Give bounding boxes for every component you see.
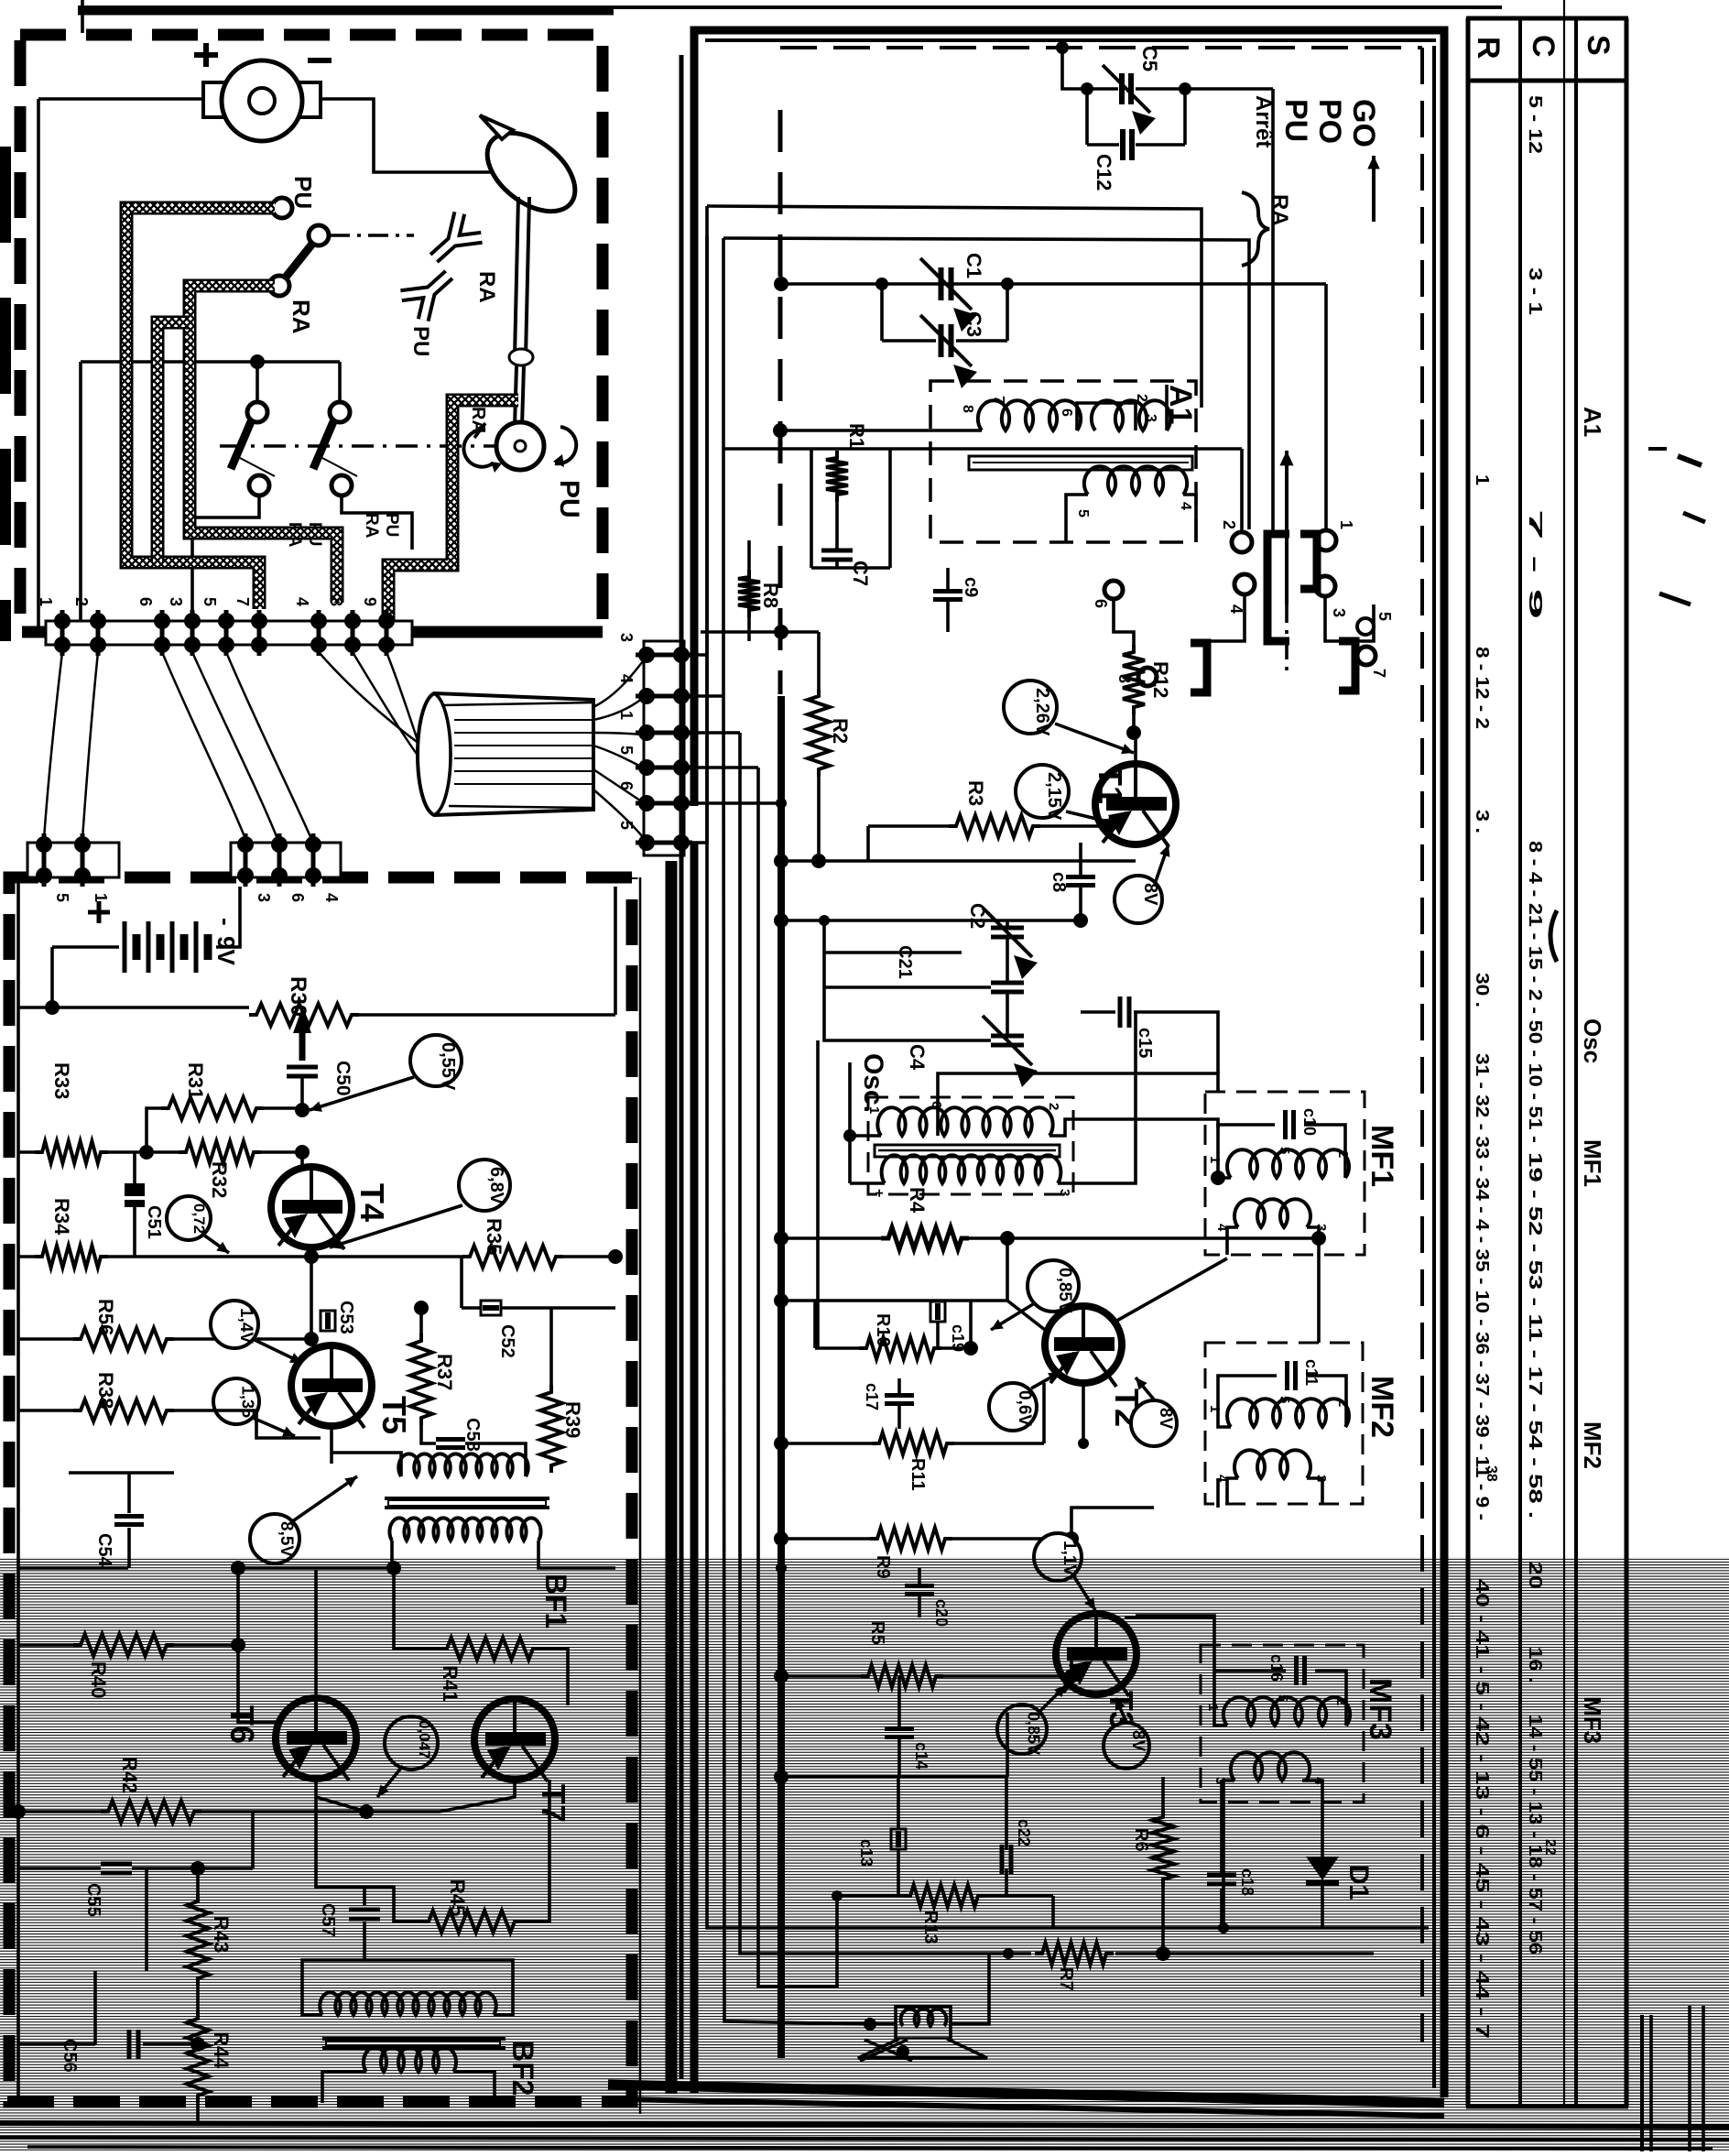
C2 C21 C4 wires [1006,920,1009,927]
wire T3 collector MF3 [1125,1616,1214,1619]
capacitor C11 [1285,1361,1289,1390]
svg-text:0,6V: 0,6V [1015,1390,1034,1426]
node T5 base [304,1332,319,1346]
terminal 1 [54,613,71,629]
wire rail 1940 [781,1775,1007,1779]
svg-text:5: 5 [1376,612,1394,621]
svg-text:C3: C3 [962,311,985,337]
tone arm tube [515,197,518,357]
terminal strip 9-pin [46,621,412,645]
voltage 8V T1 [1115,876,1162,923]
A1 coupling coil [1092,400,1170,430]
left page edge artifact [0,147,11,641]
resistor R31 [161,1097,264,1119]
svg-text:C12: C12 [1093,154,1115,191]
svg-text:3: 3 [1330,608,1348,617]
switch S2 contact a [247,402,267,422]
antenna A1 box dashed [930,381,1196,542]
bus junction dots [776,626,787,637]
svg-text:6: 6 [136,597,155,606]
switch bracket a [1267,534,1289,641]
svg-text:19 - 52 - 53 - 11 - 17 - 54 -: 19 - 52 - 53 - 11 - 17 - 54 - 58 . [1525,1152,1545,1519]
capacitor C57 [349,1908,380,1912]
diode D1 [1306,1857,1339,1880]
svg-text:c9: c9 [961,577,981,597]
svg-text:2,15V: 2,15V [1044,772,1064,821]
wire MF2 T3 [1216,1478,1220,1508]
wire contact1 up [1324,284,1328,530]
switch axis arrow [1285,451,1289,604]
wire rail 1352 to T2 [1007,1236,1319,1240]
voltage 0,85V T2 [1028,1260,1079,1312]
capacitor C10 [1283,1110,1288,1139]
resistor R30 [249,1004,359,1026]
svg-text:GO: GO [1346,99,1381,147]
wire rail 1712 left [18,1566,128,1570]
svg-text:+: + [871,1189,886,1197]
svg-text:Osc: Osc [1579,1018,1606,1063]
svg-text:R8: R8 [759,583,782,608]
svg-text:RA: RA [1267,194,1292,226]
terminal 3 [184,613,201,629]
svg-text:C4: C4 [906,1044,929,1071]
resistor R2 [808,689,830,777]
svg-text:R38: R38 [94,1372,117,1409]
MF1 secondary coil [1234,1199,1310,1227]
tone arm pickup head [473,117,589,227]
wire contact3 right [1325,596,1374,641]
switch contact 1 [1316,530,1336,550]
resistor R7 [1035,1943,1114,1965]
hatched bus branch [158,322,190,562]
svg-text:C58: C58 [462,1418,483,1452]
voltage 2,15V [1016,765,1069,818]
S2 mech axis dash-dot [220,444,495,448]
svg-text:8: 8 [960,405,975,413]
switch contact 8 [1138,668,1157,686]
thin page line right [1563,0,1565,2107]
svg-text:T5: T5 [375,1396,413,1434]
svg-text:R35: R35 [483,1218,506,1255]
resistor R9 [870,1528,952,1550]
wire T4 emitter node [310,1247,313,1257]
svg-text:PU: PU [382,513,401,537]
capacitor C17 [885,1393,914,1398]
stray marks right margin [1648,447,1667,451]
switch contact 3 [1315,576,1335,596]
switch bracket b [1300,534,1317,589]
long return wires [707,843,1429,1928]
switch contact 7 [1357,647,1376,665]
node T4 base [295,1103,310,1117]
resistor R38 [73,1399,174,1421]
svg-text:5: 5 [1277,1396,1292,1403]
capacitor C18 [1207,1873,1236,1878]
wire T2 collector MF2 [1114,1258,1227,1323]
svg-text:5: 5 [201,597,219,606]
svg-text:R4: R4 [906,1187,929,1214]
svg-text:1: 1 [1472,474,1492,485]
svg-text:c11: c11 [1302,1359,1321,1386]
inner dashed vertical left [778,110,783,694]
MF2 wires [1218,1376,1277,1427]
transistor T7 [474,1699,555,1780]
switch contact 5 [1357,618,1374,635]
svg-text:31 - 32 - 33 - 34 - 4 - 35 - 1: 31 - 32 - 33 - 34 - 4 - 35 - 10 - 36 - 3… [1472,1053,1492,1520]
capacitor C13 [891,1829,906,1849]
motor M [38,97,220,101]
svg-text:T1: T1 [1092,766,1129,804]
wire rail left x20 [16,877,20,2102]
resistor R5 [861,1665,943,1687]
svg-text:7: 7 [234,597,252,606]
resistor R34 [35,1246,108,1268]
svg-text:7: 7 [1370,669,1388,678]
wire rail 2040 [251,1812,255,1868]
svg-text:2: 2 [1220,520,1238,529]
svg-text:C: C [1526,35,1560,58]
thin line right of amp border [639,877,642,2114]
svg-text:5: 5 [617,746,636,755]
switch S1 RA contact [309,225,329,245]
switch bracket d [1339,641,1355,691]
capacitor C16 [1294,1656,1299,1685]
loudspeaker [896,2007,951,2039]
voltage 8V T3 [1104,1723,1149,1769]
capacitor C50 [287,1065,318,1070]
svg-text:C53: C53 [336,1301,356,1334]
svg-text:5: 5 [1277,1147,1292,1154]
wires connector to box [684,653,707,657]
svg-text:R34: R34 [50,1198,73,1236]
svg-text:c10: c10 [1300,1108,1319,1136]
resistor R13 [903,1885,985,1907]
svg-text:1: 1 [1207,1405,1223,1412]
MF3 wires [1214,1671,1286,1726]
svg-text:R: R [1471,37,1506,60]
svg-text:R30: R30 [286,976,310,1017]
svg-text:6: 6 [288,893,307,902]
table frame [1466,18,1471,2107]
MF2 primary coil [1227,1399,1349,1427]
MF3 primary coil [1223,1697,1350,1726]
svg-text:MF1: MF1 [1365,1125,1399,1187]
svg-text:C2: C2 [966,903,989,929]
capacitor C7 [821,549,853,553]
voltage 8,5V [250,1514,299,1563]
transformer BF1 [398,1454,527,1476]
svg-text:MF2: MF2 [1365,1376,1399,1438]
wire rail 225 [707,206,1202,408]
switch contact 6 [1104,581,1123,599]
transistor T6 [276,1698,356,1779]
switch contact 4 [1234,574,1255,594]
wire emitter down [310,1257,313,1339]
svg-text:R32: R32 [208,1161,231,1198]
wire T3 base [1070,1647,1073,1676]
voltage 0,6V [989,1383,1037,1431]
wire T1 row [781,859,1136,863]
voltage 1,35V [213,1378,259,1424]
oscillator coil box dashed [868,1097,1073,1194]
bus ground vertical [666,861,678,2094]
voltage 8V T2 [1131,1400,1177,1446]
svg-text:8 - 12 - 2: 8 - 12 - 2 [1472,647,1492,729]
MF3 secondary coil [1231,1752,1310,1780]
svg-text:6: 6 [617,781,636,790]
svg-text:5: 5 [617,821,636,830]
svg-text:R31: R31 [184,1062,207,1099]
svg-text:9: 9 [361,597,379,606]
svg-text:C5: C5 [1138,46,1161,71]
svg-text:PU: PU [408,326,433,356]
terminal 8 [344,613,361,629]
svg-text:2,26V: 2,26V [1032,688,1052,736]
switch S2 contact c [249,475,269,495]
connector pin 1 lower-left [74,836,91,853]
resistor R56 [73,1328,174,1350]
resistor R43 [187,1894,209,1986]
svg-text:PU: PU [289,176,317,209]
capacitor C21 [991,981,1024,985]
resistor R33 [35,1141,108,1163]
MF1 wires [1218,1125,1275,1178]
switch bracket c [1191,643,1207,692]
transformer BF2 [320,1992,495,2015]
svg-text:2: 2 [72,597,91,606]
R1 C7 frame [810,449,813,568]
top edge line [78,5,1502,9]
A1 primary coil [978,400,1081,430]
terminal 5 [218,613,234,629]
MF2 box dashed [1205,1343,1363,1504]
transistor T1 [1095,764,1176,844]
motor - label [308,58,332,63]
svg-text:8,5V: 8,5V [277,1521,296,1557]
transistor T4 [271,1167,352,1247]
svg-text:6: 6 [1059,408,1074,417]
resistor R3 [949,815,1040,837]
svg-text:1: 1 [1337,520,1355,529]
svg-text:R1: R1 [845,423,868,449]
svg-text:RA: RA [474,271,499,303]
svg-text:PU: PU [1278,99,1313,142]
svg-text:PO: PO [1312,99,1347,144]
voltage 2,26V [1004,681,1057,734]
svg-text:R10: R10 [873,1313,893,1347]
svg-text:5 - 12: 5 - 12 [1525,95,1545,154]
resistor R12 [1123,645,1145,714]
svg-text:6,8V: 6,8V [486,1167,506,1205]
tone arm pivot [496,422,544,470]
trimmer C1 [939,267,944,300]
wire amp bottom rail [18,2102,632,2104]
svg-text:R37: R37 [433,1354,456,1390]
voltage 0,72V [167,1196,211,1240]
svg-text:7: 7 [991,396,1006,404]
capacitor C56 [127,2030,132,2059]
trimmer C5 [1119,73,1125,104]
capacitor C54 [69,1471,174,1475]
terminal 6 [154,613,170,629]
wires terminal strip to cable [319,652,432,753]
capacitor C53 [321,1311,335,1331]
connector pin 3 amp [237,836,254,853]
connector 2-pin 5-1 [27,843,119,877]
svg-text:MF1: MF1 [1579,1139,1606,1187]
svg-text:R2: R2 [829,718,852,744]
connector pin 6 [638,795,655,811]
resistor R4 [881,1227,969,1249]
resistor R10 [859,1337,941,1359]
scanline noise band [0,1557,1729,2151]
MF1 box dashed [1205,1092,1365,1255]
svg-text:1: 1 [92,893,110,902]
wire rail 260 [723,238,1249,529]
capacitor C20 [905,1584,934,1588]
voltage 1,4V [211,1301,258,1348]
BF1 wires [332,1453,401,1476]
capacitor C58 [436,1437,465,1442]
wire contact2 up [1240,449,1244,532]
svg-text:2: 2 [1046,1103,1061,1110]
svg-text:3 .: 3 . [1472,810,1492,833]
svg-text:9V: 9V [212,936,240,965]
connector pin 5 lower-left [36,836,52,853]
amplifier box (dashed) [9,877,632,2102]
connector pin 4 [638,688,655,704]
svg-text:1: 1 [617,711,636,720]
A1 secondary coil [1084,466,1187,495]
svg-text:R33: R33 [50,1062,73,1099]
switch S2 contact d [332,475,352,495]
Osc secondary coil [882,1155,1061,1183]
motor + label [194,52,218,58]
bottom border amp dashed [7,2096,591,2107]
svg-text:0,72: 0,72 [190,1203,208,1234]
wire band switch vertical [1271,89,1275,532]
svg-text:3: 3 [167,597,185,606]
resistor R1 [826,451,848,502]
svg-text:C7: C7 [849,561,872,586]
svg-text:c17: c17 [863,1383,881,1410]
capacitor C22 [1000,1845,1005,1874]
svg-text:3 - 1: 3 - 1 [1525,267,1545,315]
trimmer C3 [939,324,944,357]
svg-text:3: 3 [617,633,636,642]
svg-text:C21: C21 [895,945,915,979]
switch contact 2 [1232,532,1252,552]
wire rail 1712 rx [781,1567,919,1569]
resistor R11 [872,1432,954,1454]
C1 C3 wiring [880,284,884,341]
connector pin 3 [638,647,655,663]
svg-text:R12: R12 [1149,661,1172,698]
wire long vertical 893 [816,1040,820,1348]
svg-text:8V: 8V [1140,883,1160,906]
battery B1 9V [123,921,127,973]
connector pin 6 amp [271,836,288,853]
capacitor C51 [125,1183,145,1196]
T6 T7 emitter join [316,1779,366,1812]
svg-text:RA: RA [288,299,315,334]
voltage 1,1V [1034,1533,1082,1581]
pivot rotation arrows [463,430,493,467]
resistor R44 [187,2011,209,2103]
svg-text:1: 1 [866,1106,882,1114]
connector 3-pin 3-6-4 [231,843,341,877]
svg-text:30 .: 30 . [1472,973,1492,1007]
switch S2 wiring top [81,360,340,364]
terminal 7 [251,613,267,629]
terminal 2 [90,613,106,629]
connector pin 1 [638,724,655,741]
capacitor C12 [1120,129,1125,160]
svg-text:R11: R11 [908,1458,928,1491]
svg-text:C51: C51 [144,1205,164,1239]
bus vertical main [778,696,785,2058]
svg-text:0,55V: 0,55V [438,1042,458,1091]
svg-text:1: 1 [1207,1156,1223,1163]
wire MF1 down T2 [1317,1238,1321,1343]
Osc wires [843,1129,856,1142]
svg-text:PU: PU [554,480,584,518]
svg-text:8V: 8V [1156,1408,1175,1430]
svg-text:T4: T4 [353,1183,391,1222]
svg-text:38: 38 [1484,1465,1499,1482]
battery wires [52,945,119,949]
terminal 9 [378,613,395,629]
S1 linkage dash-dot [330,234,414,237]
MF1 primary coil [1227,1149,1349,1178]
wire 690 rail [701,630,819,634]
connector pin 5 [638,759,655,776]
trimmer C2 [991,926,1024,931]
wire rail 1420 T2 [781,1299,1007,1302]
band brace [1242,192,1269,266]
svg-text:1,35: 1,35 [238,1386,256,1418]
resistor R37 [410,1334,432,1425]
chassis bottom right solid border [412,626,603,638]
A1 wires [780,429,982,432]
hatched bus tone-arm route [388,400,518,623]
svg-text:R39: R39 [561,1401,584,1438]
capacitor C9 [933,589,962,593]
wires terminal strip to lower connectors [44,652,62,839]
svg-text:c15: c15 [1135,1028,1155,1058]
svg-text:2: 2 [1335,1399,1351,1407]
connector pin 4 amp [305,836,321,853]
wire T6 base [238,1568,277,1722]
resistor R35 [462,1246,563,1268]
svg-text:R56: R56 [94,1299,117,1335]
svg-text:1,4V: 1,4V [236,1308,256,1344]
transistor T3 [1056,1614,1136,1694]
resistor R39 [540,1385,562,1473]
svg-text:-: - [212,918,240,926]
speaker wires [870,2022,896,2026]
BF2 wires [302,1960,364,2015]
capacitor C52 [481,1301,501,1315]
trimmer C4 [991,1034,1024,1039]
voltage 6,8V [459,1160,510,1211]
resistor R6 [1152,1810,1174,1887]
svg-text:7 - 9: 7 - 9 [1525,509,1545,619]
svg-text:3: 3 [1143,414,1158,422]
switch S2 contact b [330,402,350,422]
svg-text:4: 4 [617,674,636,683]
resistor R41 [440,1638,540,1660]
